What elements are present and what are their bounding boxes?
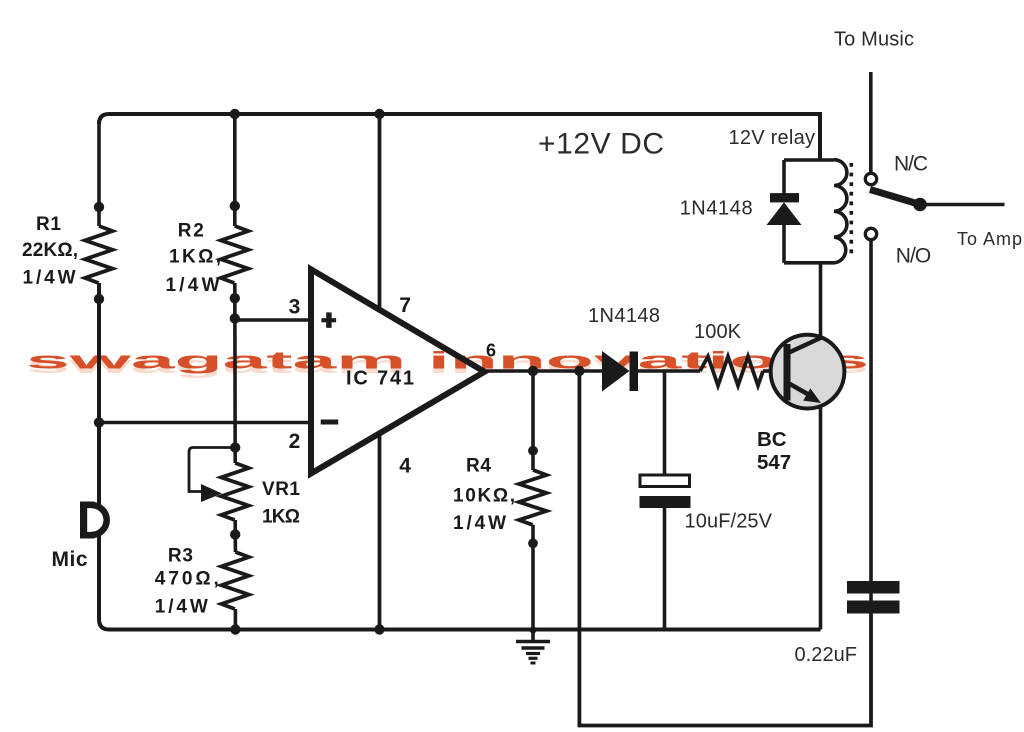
svg-text:N/C: N/C: [894, 153, 928, 176]
svg-text:R1: R1: [36, 214, 61, 235]
svg-text:4: 4: [399, 455, 411, 478]
svg-text:10KΩ,: 10KΩ,: [453, 486, 515, 507]
svg-text:To Music: To Music: [834, 29, 914, 51]
svg-text:1N4148: 1N4148: [588, 305, 660, 327]
svg-text:VR1: VR1: [262, 479, 300, 500]
svg-text:10uF/25V: 10uF/25V: [685, 511, 773, 533]
svg-text:1KΩ,: 1KΩ,: [169, 247, 221, 268]
svg-text:1/4W: 1/4W: [166, 275, 220, 296]
svg-text:R3: R3: [168, 546, 193, 567]
svg-text:1/4W: 1/4W: [23, 268, 76, 289]
svg-text:22KΩ,: 22KΩ,: [22, 240, 78, 261]
svg-text:Mic: Mic: [52, 548, 88, 571]
svg-text:N/O: N/O: [896, 244, 932, 267]
svg-text:1/4W: 1/4W: [155, 597, 208, 618]
svg-text:6: 6: [486, 341, 496, 361]
svg-text:1N4148: 1N4148: [680, 198, 753, 220]
svg-text:+12V DC: +12V DC: [538, 128, 664, 161]
svg-text:547: 547: [757, 451, 791, 474]
svg-text:R2: R2: [178, 221, 204, 242]
svg-text:100K: 100K: [694, 321, 742, 343]
svg-text:1KΩ: 1KΩ: [262, 507, 300, 528]
svg-text:7: 7: [399, 294, 411, 317]
svg-text:1/4W: 1/4W: [453, 513, 506, 534]
svg-text:R4: R4: [466, 456, 491, 477]
svg-text:BC: BC: [757, 428, 787, 451]
svg-text:To Amp: To Amp: [957, 229, 1022, 249]
svg-text:0.22uF: 0.22uF: [795, 644, 858, 666]
svg-text:2: 2: [289, 430, 301, 453]
svg-text:12V relay: 12V relay: [729, 127, 816, 149]
svg-text:470Ω,: 470Ω,: [155, 569, 219, 590]
svg-text:3: 3: [289, 296, 301, 319]
svg-text:IC 741: IC 741: [346, 368, 414, 390]
